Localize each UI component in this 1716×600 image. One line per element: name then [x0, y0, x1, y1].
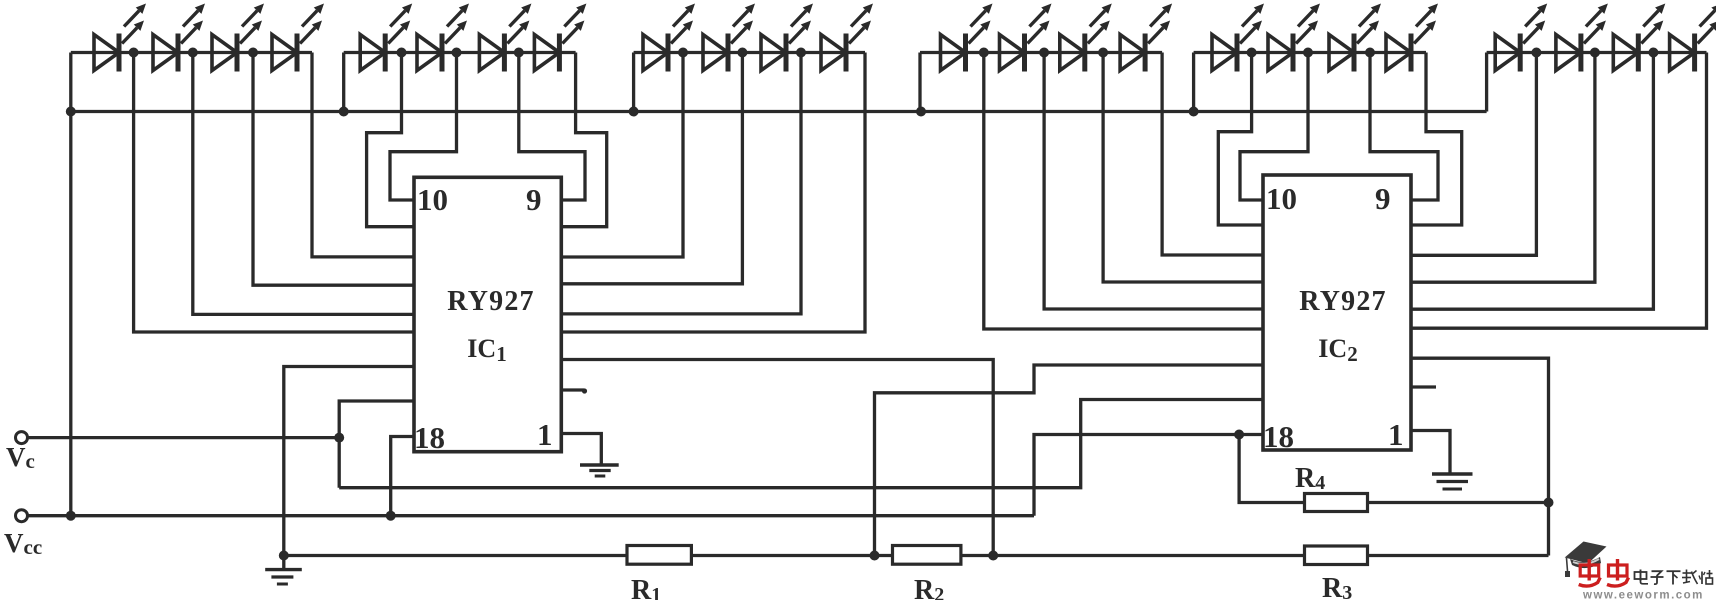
wire LED group1 anode row: [71, 51, 312, 54]
resistor R3 label: [1322, 573, 1352, 600]
svg-text:1: 1: [537, 417, 553, 452]
Vc label: [6, 442, 35, 473]
LED D14: [1000, 4, 1052, 72]
node D22 cathode: [1590, 48, 1600, 58]
node group3-bus: [629, 107, 639, 117]
IC2 name label: [1318, 334, 1357, 366]
svg-text:RY927: RY927: [447, 286, 534, 317]
LED D2: [153, 4, 205, 72]
LED D1: [94, 4, 146, 72]
node D9 cathode: [678, 48, 688, 58]
wire D2 cathode to IC1 pin: [193, 53, 414, 315]
LED D19: [1329, 4, 1381, 72]
svg-text:Vcc: Vcc: [4, 528, 42, 559]
svg-text:www.eeworm.com: www.eeworm.com: [1582, 590, 1704, 600]
pin 1 label IC1: [537, 417, 553, 452]
LED D8: [534, 4, 586, 72]
wire D7 cathode to IC1 pin 9: [519, 53, 585, 201]
wire group2 riser: [342, 53, 345, 112]
wire D1 cathode to IC1 pin: [134, 53, 414, 333]
node D14 cathode: [1039, 48, 1049, 58]
wire D17 cathode to IC2 pin: [1218, 53, 1263, 226]
pin 9 label IC2: [1375, 181, 1391, 216]
node ground-rail junction: [279, 551, 289, 561]
ground symbol IC1 pin1: [580, 465, 619, 476]
node bus-left: [66, 107, 76, 117]
logo chongchong text: [1579, 559, 1629, 586]
wire rail tap to IC2 pin: [875, 365, 1264, 556]
wire D13 cathode to IC2 pin: [984, 53, 1263, 330]
svg-text:RY927: RY927: [1299, 286, 1386, 317]
node Vcc-IC1pin18 junction: [386, 511, 396, 521]
node Vcc-leftrail: [66, 511, 76, 521]
LED D5: [360, 4, 412, 72]
logo site name text: [1635, 570, 1713, 585]
wire IC2 reset stub: [1411, 385, 1436, 388]
logo url text: [1582, 590, 1704, 600]
LED D7: [479, 4, 531, 72]
svg-text:18: 18: [1263, 419, 1294, 454]
wire D9 cathode to IC1 pin: [561, 53, 683, 258]
wire Vcc riser to IC2 pin 18: [1034, 435, 1263, 516]
wire D5 cathode to IC1 pin: [367, 53, 414, 227]
wire D23 cathode to IC2 pin: [1411, 53, 1653, 310]
wire R4 right lead: [1368, 501, 1549, 504]
resistor R3 body: [1305, 546, 1368, 565]
node group5-bus: [1189, 107, 1199, 117]
node group2-bus: [339, 107, 349, 117]
terminal Vcc: [16, 510, 28, 522]
node group4-bus: [916, 107, 926, 117]
pin 1 label IC2: [1388, 417, 1404, 452]
wire D22 cathode to IC2 pin: [1411, 53, 1595, 283]
wire D20 cathode to IC2 pin: [1411, 53, 1462, 226]
wire Vcc to IC1 pin 18: [391, 437, 414, 516]
LED D16: [1120, 4, 1172, 72]
pin 9 label IC1: [526, 182, 542, 217]
wire bottom rail: [284, 554, 1549, 557]
node rail-R2left junction: [870, 551, 880, 561]
LED D21: [1495, 4, 1547, 72]
wire pin18 node to R4: [1239, 435, 1304, 503]
LED D23: [1613, 4, 1665, 72]
wire D19 cathode to IC2 pin 9: [1370, 53, 1438, 201]
logo graduation cap: [1565, 542, 1607, 578]
IC1 name label: [467, 334, 506, 366]
wire IC2 osc pin to rail end: [1411, 358, 1549, 555]
wire IC1 pin to ground rail: [284, 367, 414, 570]
node IC2 pin18 junction: [1234, 430, 1244, 440]
LED D9: [643, 4, 695, 72]
wire Vc line: [28, 436, 340, 439]
node D6 cathode: [452, 48, 462, 58]
wire IC1 osc pin to rail: [561, 360, 993, 556]
wire IC1 reset stub: [561, 388, 587, 393]
terminal Vc: [16, 432, 28, 444]
node D3 cathode: [248, 48, 258, 58]
wire Vc to IC2 pin: [339, 400, 1263, 488]
wire D4 cathode to IC1 pin: [312, 53, 414, 257]
LED D20: [1386, 4, 1438, 72]
wire group5 riser: [1192, 53, 1195, 112]
pin 18 label IC1: [414, 420, 445, 455]
svg-text:9: 9: [1375, 181, 1391, 216]
resistor R4 label: [1295, 463, 1325, 494]
svg-text:R1: R1: [631, 575, 661, 600]
wire IC1 pin 1 to ground: [561, 434, 601, 465]
wire Vcc line: [28, 514, 1035, 517]
LED D17: [1212, 4, 1264, 72]
resistor R1 body: [627, 546, 691, 565]
node D15 cathode: [1098, 48, 1108, 58]
IC2 RY927 label: [1299, 286, 1386, 317]
wire group4 riser: [918, 53, 921, 112]
wire LED group3 anode row: [634, 51, 865, 54]
node D2 cathode: [188, 48, 198, 58]
pin 18 label IC2: [1263, 419, 1294, 454]
node D17 cathode: [1247, 48, 1257, 58]
LED D12: [821, 4, 873, 72]
wire D21 cathode to IC2 pin: [1411, 53, 1536, 256]
wire LED group2 anode row: [344, 51, 576, 54]
node rail-R2right junction: [988, 551, 998, 561]
ground symbol IC2 pin1: [1432, 474, 1473, 489]
wire cathode-return bus: [71, 110, 1487, 113]
resistor R4 body: [1305, 494, 1368, 512]
wire LED group4 anode row: [920, 51, 1162, 54]
wire D18 cathode to IC2 pin 10: [1240, 53, 1308, 201]
wire LED group6 anode row: [1487, 51, 1707, 54]
svg-text:R4: R4: [1295, 463, 1325, 494]
node D19 cathode: [1365, 48, 1375, 58]
node D7 cathode: [514, 48, 524, 58]
wire D11 cathode to IC1 pin: [561, 53, 801, 314]
wire D8 cathode to IC1 pin: [561, 53, 606, 227]
LED D10: [703, 4, 755, 72]
pin 10 label IC1: [417, 182, 448, 217]
LED D15: [1060, 4, 1112, 72]
svg-text:10: 10: [1266, 181, 1297, 216]
svg-text:R2: R2: [914, 575, 944, 600]
LED D13: [941, 4, 993, 72]
wire D3 cathode to IC1 pin: [253, 53, 414, 286]
LED D18: [1268, 4, 1320, 72]
LED D11: [761, 4, 813, 72]
LED D4: [272, 4, 324, 72]
wire D10 cathode to IC1 pin: [561, 53, 742, 284]
wire D24 cathode to IC2 pin: [1411, 53, 1707, 329]
svg-text:18: 18: [414, 420, 445, 455]
LED D3: [212, 4, 264, 72]
node D1 cathode: [129, 48, 139, 58]
wire Vc to IC1 pin: [339, 401, 414, 488]
resistor R2 body: [893, 546, 961, 565]
svg-text:9: 9: [526, 182, 542, 217]
resistor R2 label: [914, 575, 944, 600]
wire D16 cathode to IC2 pin: [1162, 53, 1263, 256]
node D5 cathode: [397, 48, 407, 58]
node D13 cathode: [979, 48, 989, 58]
pin 10 label IC2: [1266, 181, 1297, 216]
node D18 cathode: [1303, 48, 1313, 58]
wire D12 cathode to IC1 pin: [561, 53, 865, 333]
wire D14 cathode to IC2 pin: [1044, 53, 1263, 310]
op-amp U1 body (IC1 RY927): [414, 177, 561, 451]
wire IC2 pin 1 to ground: [1411, 431, 1450, 474]
node Vc junction: [334, 433, 344, 443]
LED D6: [417, 4, 469, 72]
svg-text:R3: R3: [1322, 573, 1352, 600]
LED D24: [1670, 4, 1716, 72]
wire LED group5 anode row: [1194, 51, 1426, 54]
Vcc label: [4, 528, 42, 559]
node R4-right junction: [1544, 498, 1554, 508]
node D10 cathode: [737, 48, 747, 58]
op-amp U2 body (IC2 RY927): [1263, 175, 1411, 450]
ground symbol G1: [265, 570, 302, 584]
wire left rail: [69, 53, 72, 516]
node D23 cathode: [1648, 48, 1658, 58]
wire group6 riser (bus end): [1485, 53, 1488, 112]
svg-text:10: 10: [417, 182, 448, 217]
LED D22: [1556, 4, 1608, 72]
wire D15 cathode to IC2 pin: [1103, 53, 1263, 283]
node D11 cathode: [796, 48, 806, 58]
wire group3 riser: [632, 53, 635, 112]
IC1 RY927 label: [447, 286, 534, 317]
svg-text:Vc: Vc: [6, 442, 35, 473]
svg-text:1: 1: [1388, 417, 1404, 452]
resistor R1 label: [631, 575, 661, 600]
node D21 cathode: [1531, 48, 1541, 58]
wire D6 cathode to IC1 pin 10: [390, 53, 457, 201]
